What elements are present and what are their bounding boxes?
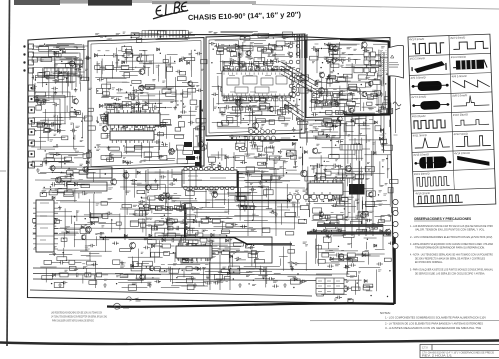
value label	[278, 177, 283, 178]
wire	[74, 190, 76, 203]
transistor Q127	[319, 87, 325, 94]
value label	[259, 96, 263, 97]
wire	[106, 104, 110, 106]
junction	[35, 79, 36, 80]
wire	[237, 92, 243, 94]
wire	[228, 252, 230, 263]
wire	[45, 220, 49, 222]
wire	[329, 254, 335, 256]
wire	[207, 252, 210, 254]
resistor R288	[246, 167, 255, 173]
resistor R375	[222, 251, 230, 255]
junction	[300, 147, 301, 148]
resistor R278	[214, 169, 221, 173]
resistor R273	[387, 110, 392, 114]
wire	[172, 222, 176, 224]
diode D122	[179, 59, 182, 62]
resistor R217	[224, 69, 231, 73]
resistor R235	[217, 122, 222, 126]
wire	[239, 89, 241, 96]
scan artifact: left paper edge	[7, 0, 10, 346]
diode D168	[124, 234, 127, 237]
resistor R255	[373, 80, 380, 85]
wire	[245, 173, 277, 175]
wire	[48, 124, 50, 132]
value label	[180, 263, 183, 265]
wire	[239, 188, 241, 211]
wire	[144, 54, 149, 56]
resistor R258	[343, 74, 352, 78]
wire	[218, 85, 220, 104]
resistor R381	[183, 242, 189, 248]
resistor R220	[217, 50, 224, 54]
capacitor C185	[315, 80, 322, 83]
value label	[252, 105, 256, 106]
resistor R127	[45, 128, 51, 131]
wire	[132, 105, 134, 114]
wire	[67, 169, 88, 171]
wire	[183, 207, 190, 209]
value label	[202, 268, 206, 269]
resistor R207	[227, 118, 233, 123]
resistor R373	[195, 251, 200, 255]
wire	[338, 120, 344, 122]
resistor R129	[116, 115, 122, 119]
value label	[261, 50, 264, 51]
wire	[96, 236, 98, 246]
capacitor C244	[143, 246, 150, 249]
junction	[223, 187, 224, 188]
value label	[261, 186, 265, 187]
junction	[194, 50, 195, 51]
value label	[80, 164, 84, 165]
resistor R213	[226, 80, 233, 84]
value label	[285, 79, 290, 80]
capacitor C147	[225, 105, 231, 109]
value label	[246, 56, 250, 57]
wire	[158, 139, 160, 159]
wire	[157, 68, 159, 76]
value label	[286, 106, 289, 107]
wire	[217, 127, 254, 129]
wire	[336, 94, 338, 103]
capacitor C161	[283, 62, 290, 65]
ground	[126, 161, 130, 165]
value label	[262, 154, 266, 155]
junction	[269, 43, 270, 44]
wire	[230, 62, 238, 64]
wire	[167, 158, 175, 160]
resistor R268	[328, 76, 335, 79]
wire	[54, 59, 56, 70]
resistor R165	[190, 100, 197, 104]
resistor R151	[107, 158, 114, 161]
wire	[58, 124, 60, 134]
value label	[206, 259, 211, 260]
value label	[239, 80, 242, 81]
junction	[239, 140, 240, 141]
wire	[240, 107, 242, 120]
resistor R324	[148, 196, 155, 200]
wire	[346, 75, 348, 93]
resistor R114	[83, 154, 90, 159]
wire	[261, 49, 263, 62]
value label	[100, 36, 104, 37]
wire	[265, 88, 267, 96]
resistor R329	[195, 233, 203, 237]
value label	[31, 88, 35, 89]
resistor R191	[227, 47, 236, 51]
value label	[161, 217, 164, 219]
wire	[63, 248, 65, 257]
wire	[72, 96, 74, 103]
junction	[50, 189, 51, 190]
diode D102	[43, 99, 46, 103]
svg-text:4V4 2.0ms/D: 4V4 2.0ms/D	[451, 55, 466, 60]
value label	[303, 242, 307, 243]
capacitor C236	[170, 238, 176, 242]
resistor R110	[86, 153, 91, 158]
resistor R181	[101, 134, 107, 139]
wire	[274, 54, 285, 56]
wire	[74, 239, 109, 241]
resistor R172	[183, 151, 193, 155]
svg-text:4V6 5.0ms/D: 4V6 5.0ms/D	[451, 74, 466, 79]
junction	[154, 225, 155, 226]
wire	[93, 172, 95, 182]
junction	[259, 96, 260, 97]
resistor R108	[37, 123, 47, 127]
diode D177	[226, 239, 229, 242]
wire	[355, 60, 357, 64]
resistor R347	[135, 211, 143, 216]
ground	[270, 48, 274, 52]
resistor R270	[368, 72, 375, 76]
value label	[189, 54, 193, 55]
capacitor C198	[209, 163, 216, 166]
wire	[99, 114, 136, 116]
resistor R184	[133, 133, 140, 137]
diode D131	[256, 66, 259, 69]
value label	[173, 264, 177, 265]
junction	[213, 49, 214, 50]
junction	[111, 219, 112, 220]
junction	[113, 123, 114, 124]
junction	[42, 193, 43, 194]
wire	[64, 228, 80, 230]
wire	[156, 39, 189, 41]
wire	[202, 206, 225, 208]
wire	[64, 261, 69, 263]
resistor R294	[131, 33, 139, 37]
value label	[323, 88, 327, 90]
wire	[298, 74, 300, 94]
value label	[111, 98, 115, 99]
wire	[267, 77, 269, 91]
resistor R360	[188, 230, 198, 234]
value label	[261, 83, 264, 84]
wire	[43, 192, 65, 194]
wire	[180, 235, 182, 244]
junction	[154, 129, 155, 130]
wire	[117, 121, 119, 142]
junction	[44, 124, 45, 125]
junction	[210, 253, 211, 254]
wire	[154, 195, 181, 197]
ground	[36, 168, 40, 172]
diode D118	[118, 136, 121, 139]
resistor R269	[383, 103, 391, 108]
junction	[179, 268, 180, 269]
value label	[127, 55, 131, 56]
resistor R285	[257, 146, 262, 151]
capacitor C228	[236, 204, 243, 207]
value label	[95, 34, 99, 35]
value label	[283, 162, 288, 163]
value label	[42, 217, 45, 218]
wire	[46, 217, 48, 228]
junction	[135, 67, 136, 68]
value label	[75, 187, 79, 189]
resistor R188	[163, 60, 168, 63]
ground	[290, 267, 294, 271]
wire	[134, 110, 147, 112]
transistor Q142	[130, 242, 136, 249]
junction	[224, 171, 225, 172]
resistor R180	[125, 147, 135, 151]
wire	[184, 253, 190, 255]
resistor R122	[62, 136, 68, 140]
junction	[254, 81, 255, 82]
value label	[274, 156, 278, 157]
value label	[85, 224, 88, 225]
value label	[246, 271, 250, 272]
svg-text:5.- PARA CUALQUIER AJUSTE DE L: 5.- PARA CUALQUIER AJUSTE DE LOS PUNTOS …	[410, 268, 493, 272]
wire	[149, 248, 151, 258]
wire	[376, 84, 378, 105]
capacitor C116	[54, 153, 61, 156]
resistor R346	[182, 204, 192, 208]
capacitor C149	[247, 105, 253, 109]
value label	[250, 183, 253, 184]
wire	[174, 220, 181, 222]
wire	[352, 94, 354, 101]
capacitor C173	[324, 101, 330, 105]
wire	[110, 135, 140, 137]
wire	[282, 88, 295, 90]
wire	[268, 56, 293, 58]
value label	[146, 88, 150, 89]
capacitor C132	[157, 155, 164, 158]
wire	[192, 240, 194, 247]
capacitor C131	[161, 143, 168, 146]
capacitor C226	[240, 225, 247, 228]
resistor R321	[103, 213, 108, 218]
capacitor C144	[176, 70, 183, 73]
resistor R386	[132, 262, 138, 267]
resistor R313	[38, 219, 46, 223]
capacitor C113	[39, 101, 46, 104]
capacitor C118	[105, 115, 111, 119]
wire	[383, 52, 385, 60]
wire	[108, 117, 110, 127]
resistor R148	[134, 145, 142, 149]
junction	[195, 108, 196, 109]
scan artifact: bottom page edge curve	[0, 341, 499, 345]
capacitor C220	[178, 206, 184, 210]
wire	[234, 214, 258, 216]
wire	[215, 40, 239, 42]
value label	[308, 232, 313, 233]
diode D145	[328, 61, 331, 64]
resistor R186	[160, 155, 167, 160]
wire	[73, 74, 83, 76]
wire	[343, 111, 350, 113]
wire	[363, 54, 365, 63]
wire	[103, 77, 127, 79]
resistor R328	[167, 233, 175, 237]
wire	[283, 247, 285, 271]
value label	[44, 131, 48, 132]
wire	[150, 207, 155, 209]
value label	[305, 245, 308, 246]
resistor R239	[260, 98, 267, 101]
wire	[323, 96, 325, 105]
value label	[299, 157, 303, 158]
resistor R283	[239, 148, 246, 152]
wire	[223, 99, 261, 101]
resistor R274	[331, 102, 338, 106]
capacitor C179	[326, 43, 333, 46]
wire	[258, 167, 276, 169]
junction	[35, 130, 36, 131]
value label	[324, 101, 329, 102]
wire	[288, 275, 297, 277]
wire	[59, 161, 75, 163]
capacitor C192	[229, 135, 235, 139]
wire	[292, 113, 294, 120]
svg-text:4V10 20µs/D: 4V10 20µs/D	[453, 112, 468, 117]
value label	[334, 78, 337, 79]
wire	[35, 208, 37, 223]
wire	[137, 66, 141, 68]
wire	[310, 91, 345, 93]
wire	[174, 254, 176, 263]
value label	[379, 66, 382, 67]
ground	[253, 143, 257, 147]
capacitor C115	[43, 160, 50, 163]
wire	[229, 194, 266, 196]
wire	[54, 211, 72, 213]
wire	[100, 66, 106, 68]
wire	[102, 96, 122, 98]
resistor R183	[103, 92, 110, 95]
wire	[155, 171, 164, 173]
wire	[309, 209, 311, 217]
value label	[142, 193, 146, 195]
value label	[368, 107, 373, 108]
resistor R350	[185, 191, 194, 196]
value label	[97, 64, 101, 65]
capacitor C102	[49, 122, 55, 126]
junction	[249, 89, 250, 90]
value label	[226, 280, 229, 281]
wire	[122, 60, 152, 62]
capacitor C215	[154, 206, 160, 210]
junction	[315, 120, 316, 121]
capacitor C112	[78, 75, 85, 78]
transistor Q114	[290, 92, 295, 98]
junction	[103, 238, 104, 239]
value label	[149, 61, 154, 62]
resistor R210	[262, 49, 273, 53]
wire	[266, 208, 273, 210]
wire	[155, 245, 163, 247]
resistor R150	[179, 122, 185, 127]
value label	[152, 80, 155, 81]
wire	[251, 63, 253, 73]
wire	[116, 54, 118, 67]
junction	[204, 268, 205, 269]
junction	[338, 73, 339, 74]
box F	[87, 167, 112, 178]
wire	[217, 76, 219, 90]
resistor R297	[67, 170, 74, 174]
wire	[133, 262, 135, 269]
value label	[372, 90, 376, 91]
capacitor C136	[196, 89, 203, 92]
value label	[381, 47, 385, 48]
wire	[122, 116, 128, 118]
wire	[274, 91, 276, 101]
capacitor C201	[59, 260, 65, 264]
svg-text:LAS RESISTENCIAS INDICADAS SON: LAS RESISTENCIAS INDICADAS SON DE 1/2W. …	[51, 312, 102, 315]
resistor R354	[168, 219, 178, 223]
wire	[138, 99, 175, 101]
diode D169	[174, 178, 177, 181]
wire	[230, 252, 237, 254]
capacitor C212	[59, 180, 66, 183]
value label	[148, 133, 151, 134]
wire	[298, 263, 307, 265]
wire	[286, 184, 288, 208]
resistor R231	[252, 85, 260, 88]
capacitor C197	[249, 141, 256, 144]
junction	[98, 121, 99, 122]
junction	[333, 70, 334, 71]
junction	[205, 252, 206, 253]
wire	[67, 71, 69, 86]
wire	[327, 76, 349, 78]
value label	[107, 104, 112, 105]
wire	[311, 86, 313, 112]
resistor R157	[151, 118, 157, 123]
wire	[122, 75, 138, 77]
wire	[252, 108, 254, 125]
wire	[151, 239, 189, 241]
wire	[239, 92, 241, 110]
value label	[306, 204, 310, 205]
wire	[125, 107, 132, 109]
resistor R212	[288, 81, 294, 84]
wire	[46, 100, 50, 102]
capacitor C227	[159, 175, 166, 178]
wire	[129, 213, 147, 215]
wire	[101, 61, 103, 79]
value label	[232, 131, 236, 133]
wire	[39, 100, 43, 102]
wire	[226, 85, 237, 87]
